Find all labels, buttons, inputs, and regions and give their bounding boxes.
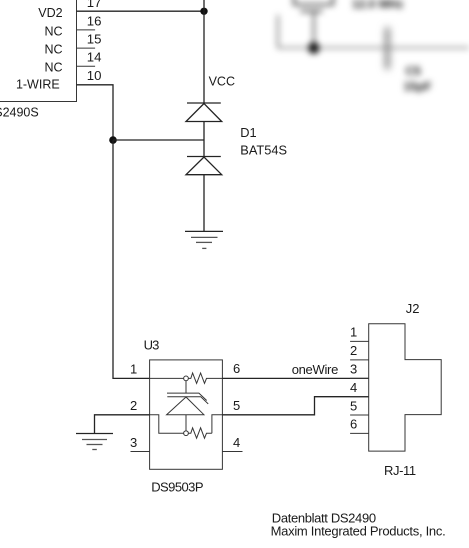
U3 internal: esd diode triangle bbox=[167, 397, 204, 415]
svg-text:2: 2 bbox=[130, 398, 137, 413]
wire 1-wire node to D1 midpoint bbox=[113, 139, 204, 141]
pin 15 stub bbox=[77, 47, 96, 49]
svg-text:RJ-11: RJ-11 bbox=[384, 463, 416, 478]
wire VCC node up bbox=[203, 0, 205, 11]
J2 pin 1 stub bbox=[350, 340, 369, 342]
wire VCC node down to D1 bbox=[203, 11, 205, 103]
U3 internal node circle top bbox=[184, 376, 189, 381]
svg-text:14: 14 bbox=[87, 49, 102, 64]
svg-text:NC: NC bbox=[45, 61, 63, 75]
svg-text:U3: U3 bbox=[144, 338, 160, 353]
svg-text:DS2490S: DS2490S bbox=[0, 106, 39, 120]
svg-text:J2: J2 bbox=[406, 301, 420, 316]
svg-text:NC: NC bbox=[45, 43, 63, 57]
blurred background group (crystal circuit, out of focus) bbox=[278, 0, 469, 94]
svg-text:NC: NC bbox=[45, 24, 63, 38]
svg-text:1: 1 bbox=[350, 325, 357, 340]
svg-text:1: 1 bbox=[130, 361, 137, 376]
U3 internal node circle bottom bbox=[184, 431, 189, 436]
U3 internal: zener bar 1 bbox=[167, 393, 207, 400]
U3 pin 3 stub bbox=[131, 451, 150, 453]
svg-text:VD2: VD2 bbox=[38, 6, 62, 20]
wire between D1 halves bbox=[203, 122, 205, 157]
wire vertical left end bbox=[277, 15, 279, 48]
wire oneWire (U3 pin6 to J2 pin3) bbox=[222, 377, 368, 379]
svg-text:10: 10 bbox=[87, 68, 102, 83]
svg-text:C5: C5 bbox=[406, 64, 422, 78]
diode D1a (top half of BAT54S) bbox=[186, 103, 222, 122]
svg-text:15pF: 15pF bbox=[404, 80, 432, 94]
svg-text:VCC: VCC bbox=[209, 74, 235, 88]
svg-text:BAT54S: BAT54S bbox=[240, 143, 287, 158]
svg-text:5: 5 bbox=[350, 398, 357, 413]
J2 pin 5 stub bbox=[350, 414, 369, 416]
junction VCC node dot bbox=[200, 8, 207, 15]
pin 16 stub bbox=[77, 29, 96, 31]
ground symbol (U3 pin2) bbox=[76, 434, 113, 450]
ground symbol (D1) bbox=[185, 231, 223, 248]
svg-text:3: 3 bbox=[130, 435, 137, 450]
svg-text:2: 2 bbox=[350, 343, 357, 358]
svg-text:16: 16 bbox=[87, 13, 102, 28]
svg-text:12.0 MHz: 12.0 MHz bbox=[352, 0, 403, 11]
wire D1 to ground bbox=[203, 175, 205, 232]
J2 pin 2 stub bbox=[350, 359, 369, 361]
IC U2 DS2490S body (clipped at left/top) bbox=[0, 0, 77, 102]
crystal Y1 body bbox=[294, 0, 333, 5]
J2 pin 3 stub bbox=[350, 377, 369, 379]
wire pin 10 (1-WIRE) bbox=[77, 85, 114, 140]
svg-text:4: 4 bbox=[233, 435, 240, 450]
wire crystal to node bbox=[313, 12, 315, 48]
wire U3 pin5 to J2 pin4 bbox=[222, 397, 368, 415]
svg-text:6: 6 bbox=[233, 361, 240, 376]
wire horizontal blurred bbox=[278, 47, 469, 49]
svg-text:DS9503P: DS9503P bbox=[151, 479, 203, 494]
svg-text:oneWire: oneWire bbox=[292, 362, 338, 377]
U3 internal: esd vertical bottom bbox=[185, 415, 187, 431]
wire pin 17 to VCC node bbox=[77, 10, 205, 12]
svg-text:D1: D1 bbox=[240, 125, 256, 140]
svg-text:17: 17 bbox=[87, 0, 102, 10]
J2 pin 4 stub bbox=[350, 396, 369, 398]
svg-text:3: 3 bbox=[350, 362, 357, 377]
capacitor C5 plate (heavily blurred) bbox=[385, 28, 390, 70]
U3 pin 4 stub bbox=[222, 451, 242, 453]
crystal plate bbox=[301, 10, 323, 12]
J2 pin 6 stub bbox=[350, 432, 369, 434]
U3 internal: zener bar 2 bbox=[167, 397, 208, 404]
junction dot (blurred) bbox=[308, 42, 319, 53]
wire 1-wire node down to U3 pin 1 bbox=[113, 140, 150, 378]
wire U3 pin2 to ground bbox=[95, 415, 150, 434]
svg-text:Maxim Integrated Products, Inc: Maxim Integrated Products, Inc. bbox=[271, 523, 446, 538]
svg-text:1-WIRE: 1-WIRE bbox=[16, 78, 60, 92]
svg-text:4: 4 bbox=[350, 380, 357, 395]
U3 internal resistor R1 bbox=[188, 373, 222, 383]
svg-text:6: 6 bbox=[350, 417, 357, 432]
connector J2 body bbox=[369, 324, 442, 451]
U3 internal: esd suppressor vertical top bbox=[185, 381, 187, 393]
U3 internal resistor R2 bbox=[188, 428, 212, 438]
pin 14 stub bbox=[77, 65, 96, 67]
IC U3 body bbox=[150, 360, 223, 469]
diode D1b (bottom half of BAT54S) bbox=[186, 157, 222, 175]
svg-text:5: 5 bbox=[233, 398, 240, 413]
U3 internal: pin5 step wire bbox=[212, 415, 223, 433]
U3 internal: pin1-pin6 line with resistor R1 bbox=[150, 377, 184, 379]
U3 internal: pin2 step wire bbox=[150, 415, 184, 433]
svg-text:15: 15 bbox=[87, 32, 102, 47]
junction 1-wire node dot bbox=[109, 136, 117, 144]
